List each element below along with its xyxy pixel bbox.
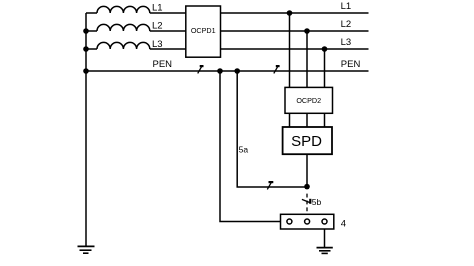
wire SPD output (306, 154, 308, 186)
svg-text:L3: L3 (152, 39, 163, 50)
node PEN tap 5a (234, 68, 240, 74)
wire L3 (86, 48, 369, 50)
wire L1 (86, 12, 369, 14)
svg-text:L1: L1 (341, 1, 352, 12)
disconnecting link on PEN (left) (198, 66, 204, 73)
ground (left rail) (78, 246, 95, 253)
svg-text:5a: 5a (239, 145, 249, 155)
terminal 1 (287, 219, 292, 224)
terminal 2 (305, 219, 310, 224)
node PEN tap to terminal block (217, 68, 223, 74)
wire L1 tap to OCPD2 (289, 13, 291, 87)
svg-text:SPD: SPD (291, 133, 322, 150)
svg-text:L1: L1 (152, 2, 163, 13)
surge protective device SPD (283, 127, 332, 154)
disconnecting link 5b (302, 199, 311, 204)
ground (terminal block) (317, 248, 333, 254)
svg-text:L3: L3 (341, 37, 352, 48)
node rail-L2 junction (83, 28, 89, 34)
svg-text:PEN: PEN (153, 59, 173, 70)
wire OCPD2 to SPD pin 1 (289, 113, 291, 127)
node L2 tap (304, 28, 310, 34)
wire PEN (86, 70, 369, 72)
wire L3 tap to OCPD2 (324, 49, 326, 87)
wire 5b dashed conductor (306, 194, 308, 215)
svg-text:PEN: PEN (341, 59, 361, 70)
node L1 tap (287, 10, 293, 16)
node SPD output junction (304, 184, 310, 190)
node rail-L3 junction (83, 46, 89, 52)
svg-text:L2: L2 (152, 21, 163, 32)
svg-text:5b: 5b (312, 197, 322, 207)
wire terminal block to ground (324, 224, 326, 247)
svg-text:4: 4 (341, 218, 346, 229)
wire 5a conductor (237, 71, 307, 187)
inductor L3 (97, 42, 150, 49)
node L3 tap (322, 46, 328, 52)
svg-text:OCPD2: OCPD2 (296, 96, 321, 105)
svg-text:L2: L2 (341, 19, 352, 30)
wire left earthing rail (85, 13, 87, 246)
wire L2 tap to OCPD2 (306, 31, 308, 87)
wire L2 (86, 30, 369, 32)
inductor L2 (97, 24, 150, 31)
disconnecting link on PEN (right) (274, 66, 280, 73)
wire OCPD2 to SPD pin 2 (306, 113, 308, 127)
disconnecting link on 5a conductor (267, 182, 273, 189)
svg-text:OCPD1: OCPD1 (191, 26, 216, 35)
node rail-PEN junction (83, 68, 89, 74)
overcurrent protective device OCPD2 (285, 87, 333, 113)
overcurrent protective device OCPD1 (186, 6, 221, 57)
wire PEN to terminal block (220, 71, 281, 222)
terminal 3 (322, 219, 327, 224)
terminal block 4 (281, 214, 334, 229)
inductor L1 (97, 6, 150, 13)
wire OCPD2 to SPD pin 3 (324, 113, 326, 127)
